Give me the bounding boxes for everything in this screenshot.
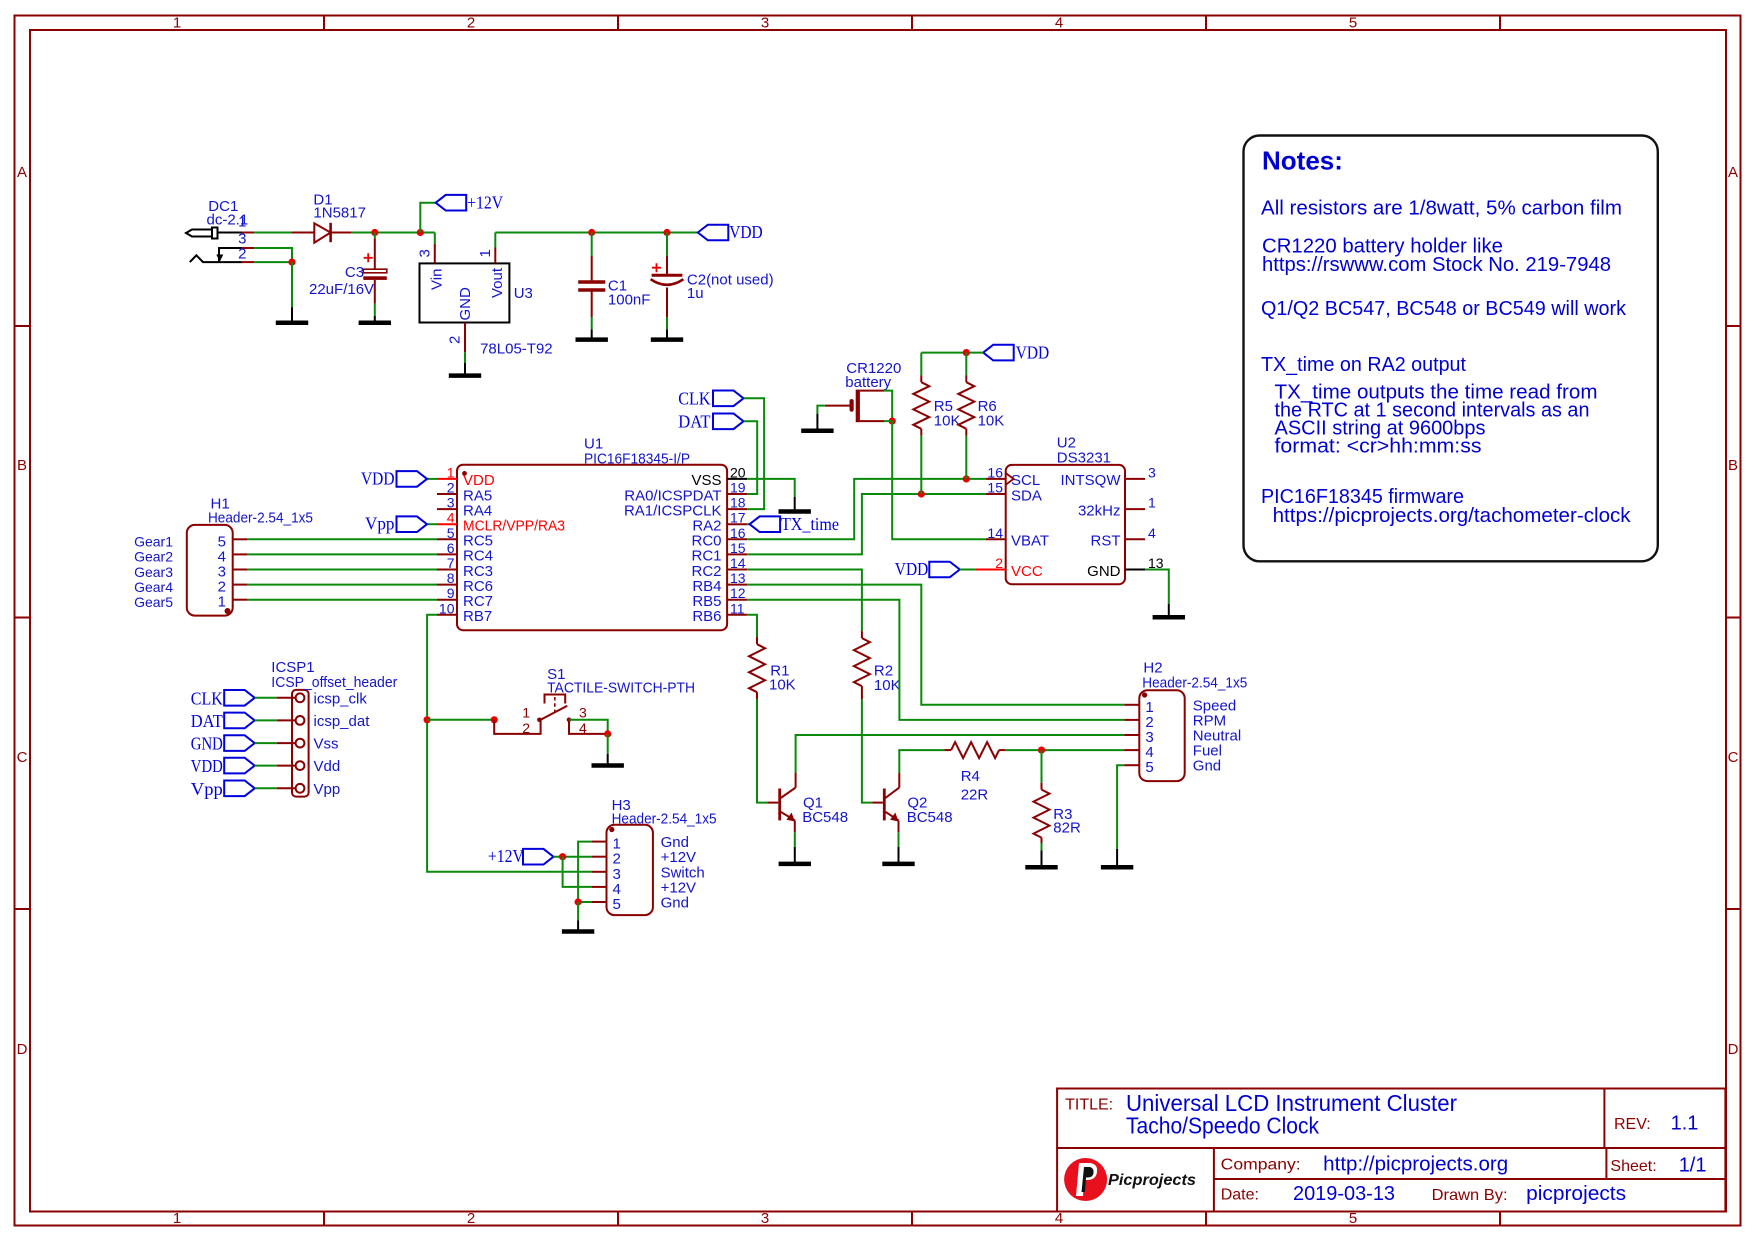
wire DAT to ICSP1 <box>255 719 277 721</box>
svg-text:BC548: BC548 <box>907 809 953 826</box>
svg-text:Gear3: Gear3 <box>134 564 173 580</box>
svg-text:+12V: +12V <box>488 846 524 866</box>
U1 pin 4 MCLR/VPP/RA3 <box>437 523 457 525</box>
svg-text:Notes:: Notes: <box>1262 146 1343 176</box>
wire H1 pin 3 to U1 <box>247 569 437 571</box>
svg-text:5: 5 <box>1145 759 1153 776</box>
wire jack node down to ground <box>291 262 293 307</box>
svg-text:icsp_dat: icsp_dat <box>314 713 371 730</box>
svg-text:32kHz: 32kHz <box>1078 502 1121 519</box>
svg-text:DS3231: DS3231 <box>1057 449 1111 466</box>
connector H1 Header-2.54_1x5 <box>187 525 233 616</box>
ground S1 <box>607 754 609 766</box>
notes box <box>1244 136 1658 562</box>
wire DC1 pin3 down to pin2 node <box>254 248 292 262</box>
svg-text:19: 19 <box>730 480 746 496</box>
ground U2 <box>1168 604 1170 617</box>
wire H2 Gnd to ground <box>1117 765 1124 849</box>
svg-text:2: 2 <box>467 15 475 32</box>
U1 pin 3 RA4 <box>437 508 457 510</box>
power flag Vpp at U1 pin4 <box>427 523 437 525</box>
U1 PIC16F18345-I/P body <box>457 465 727 631</box>
svg-text:VDD: VDD <box>729 222 763 242</box>
node C2 junction <box>663 229 670 236</box>
node jack ground junction <box>288 259 295 266</box>
wire H1 pin 5 to U1 <box>247 538 437 540</box>
svg-text:DAT: DAT <box>191 711 223 731</box>
svg-text:13: 13 <box>730 570 746 586</box>
wire R3 to ground <box>1041 843 1043 850</box>
svg-text:GND: GND <box>457 287 474 321</box>
svg-text:1: 1 <box>173 1210 181 1227</box>
wire GND to ICSP1 <box>255 742 277 744</box>
svg-text:VDD: VDD <box>895 559 929 579</box>
svg-text:C3: C3 <box>345 264 364 281</box>
node SCL R6 junction <box>963 475 970 482</box>
wire U1 RB7 down to H3 switch <box>427 615 592 872</box>
svg-text:3: 3 <box>417 249 434 257</box>
flag DAT <box>224 713 255 729</box>
svg-text:2: 2 <box>522 720 530 736</box>
power flag +12V at H3 <box>523 849 554 865</box>
svg-text:Drawn By:: Drawn By: <box>1432 1187 1508 1204</box>
svg-text:GND: GND <box>191 734 223 754</box>
battery CR1220 <box>825 390 884 423</box>
U1 pin 19 RA0/ICSPDAT <box>727 493 747 495</box>
svg-text:16: 16 <box>987 464 1003 480</box>
svg-text:5: 5 <box>1349 15 1357 32</box>
power flag VDD rail <box>698 225 729 241</box>
wire +12V flag to H3 pin2 <box>554 856 593 858</box>
wire battery minus to ground <box>817 406 824 414</box>
wire H1 pin 1 to U1 <box>247 599 437 601</box>
svg-text:+12V: +12V <box>467 192 503 212</box>
U2 pin 1 32kHz <box>1125 508 1145 510</box>
svg-text:A: A <box>1728 164 1738 181</box>
svg-text:3: 3 <box>761 1210 769 1227</box>
capacitor C2 1u not used <box>651 233 684 330</box>
wire battery plus <box>884 391 892 422</box>
wire U1 RB6 to R1 <box>747 615 757 637</box>
flag CLK <box>224 690 255 706</box>
svg-text:SDA: SDA <box>1011 487 1042 504</box>
svg-text:RST: RST <box>1091 533 1121 550</box>
node R6 top junction <box>963 349 970 356</box>
svg-text:100nF: 100nF <box>608 292 651 309</box>
picprojects logo <box>1064 1158 1196 1201</box>
svg-text:16: 16 <box>730 525 746 541</box>
U3 pin 2 GND <box>464 323 466 353</box>
node battery junction <box>889 418 896 425</box>
svg-text:22R: 22R <box>961 787 989 804</box>
svg-text:REV:: REV: <box>1614 1116 1651 1133</box>
svg-text:DAT: DAT <box>678 411 710 431</box>
U1 pin 13 RB4 <box>727 584 747 586</box>
svg-text:2: 2 <box>238 246 246 263</box>
H2 pin 5 Gnd <box>1124 764 1139 766</box>
svg-text:78L05-T92: 78L05-T92 <box>480 341 553 358</box>
H3 pin 5 Gnd <box>592 901 607 903</box>
ICSP1 pad icsp_clk <box>296 693 305 702</box>
svg-text:Vpp: Vpp <box>191 779 223 799</box>
svg-text:18: 18 <box>730 495 746 511</box>
svg-text:4: 4 <box>447 510 455 526</box>
ground C3 <box>374 316 376 323</box>
wire U1 RC0 to U2 SCL <box>747 479 986 539</box>
svg-text:7: 7 <box>447 555 455 571</box>
svg-text:Gnd: Gnd <box>661 895 689 912</box>
flag Vpp <box>224 781 255 797</box>
wire +12V to H3 pin4 <box>563 857 592 887</box>
svg-text:1: 1 <box>447 464 455 480</box>
wire Vpp to ICSP1 <box>255 787 277 789</box>
svg-text:4: 4 <box>1148 525 1156 541</box>
svg-text:ICSP_offset_header: ICSP_offset_header <box>271 674 397 691</box>
wire R1 to Q1 base <box>757 699 767 803</box>
svg-text:BC548: BC548 <box>802 809 848 826</box>
svg-text:1: 1 <box>238 213 246 230</box>
wire Q2 emitter to ground <box>898 832 900 847</box>
flag DAT <box>713 414 744 430</box>
svg-text:Vpp: Vpp <box>365 514 395 534</box>
H1 pin 4 <box>233 553 248 555</box>
wire R5 top <box>920 353 922 376</box>
svg-text:TX_time on RA2 output: TX_time on RA2 output <box>1261 354 1466 376</box>
svg-text:1: 1 <box>522 705 530 721</box>
svg-text:10K: 10K <box>874 677 901 694</box>
svg-text:Gear4: Gear4 <box>134 579 173 595</box>
ICSP1 pad icsp_dat <box>296 716 305 725</box>
svg-text:Vin: Vin <box>429 269 446 290</box>
svg-text:Picprojects: Picprojects <box>1108 1172 1196 1189</box>
ground Q2 <box>898 847 900 864</box>
svg-text:9: 9 <box>447 585 455 601</box>
wire R6 to SCL <box>965 436 967 479</box>
U1 pin 6 RC4 <box>437 553 457 555</box>
transistor Q2 BC548 <box>872 773 899 832</box>
connector DC1 barrel jack <box>186 228 242 263</box>
ICSP1 pad Vdd <box>296 761 305 770</box>
wire D1 cathode to +12V rail <box>351 232 434 234</box>
title block <box>1057 1089 1725 1212</box>
U1 pin 15 RC1 <box>727 553 747 555</box>
svg-text:TITLE:: TITLE: <box>1065 1097 1113 1114</box>
flag VDD <box>224 758 255 774</box>
U2 pin 2 VCC <box>976 569 1006 571</box>
U1 pin 14 RC2 <box>727 569 747 571</box>
wire DAT to U1 RA0/ICSPDAT <box>744 421 758 494</box>
node C3 junction <box>371 229 378 236</box>
svg-text:12: 12 <box>730 585 746 601</box>
svg-text:2019-03-13: 2019-03-13 <box>1293 1183 1395 1205</box>
H2 pin 3 Neutral <box>1124 734 1139 736</box>
wire Q1 collector to Neutral <box>796 735 1125 773</box>
ICSP1 pad Vss <box>296 739 305 748</box>
U2 DS3231 body <box>1006 465 1125 584</box>
DC1 pin 2 <box>242 261 254 263</box>
svg-text:Q1/Q2 BC547, BC548 or BC549 wi: Q1/Q2 BC547, BC548 or BC549 will work <box>1261 298 1627 320</box>
U2 pin 4 RST <box>1125 538 1145 540</box>
svg-text:4: 4 <box>579 720 587 736</box>
resistor R2 10K <box>861 631 863 638</box>
resistor R6 10K <box>965 375 967 382</box>
svg-text:11: 11 <box>730 600 745 616</box>
wire DC1 pin1 to D1 <box>254 232 291 234</box>
flag TX_time at RA2 <box>747 523 749 525</box>
connector ICSP1 ICSP_offset_header <box>292 690 309 797</box>
svg-text:Tacho/Speedo Clock: Tacho/Speedo Clock <box>1126 1113 1319 1139</box>
U3 pin 3 Vin <box>434 233 436 244</box>
wire U1 RC1 to U2 SDA <box>747 494 986 554</box>
svg-text:icsp_clk: icsp_clk <box>314 690 368 707</box>
svg-text:82R: 82R <box>1053 819 1081 836</box>
svg-text:B: B <box>17 457 27 474</box>
U1 pin 20 VSS <box>727 478 747 480</box>
capacitor C3 22uF/16V <box>363 233 387 317</box>
svg-text:battery: battery <box>845 374 891 391</box>
svg-text:2: 2 <box>447 336 464 344</box>
U1 pin1 marker dot <box>462 471 467 476</box>
svg-text:Sheet:: Sheet: <box>1610 1158 1656 1175</box>
wire U2 GND to ground <box>1145 570 1169 605</box>
svg-text:2: 2 <box>447 480 455 496</box>
svg-text:D: D <box>1728 1041 1739 1058</box>
wire up to +12V flag <box>420 203 435 233</box>
U2 SCL clock wedge <box>1006 473 1014 485</box>
connector H2 Header-2.54_1x5 <box>1139 690 1184 781</box>
wire Vout to VDD flag rail <box>495 232 698 234</box>
svg-text:Vss: Vss <box>314 736 339 753</box>
svg-text:CLK: CLK <box>191 688 223 708</box>
H1 pin 1 <box>233 599 248 601</box>
svg-text:B: B <box>1728 457 1738 474</box>
svg-text:All resistors are 1/8watt, 5%: All resistors are 1/8watt, 5% carbon fil… <box>1261 198 1622 220</box>
resistor R4 22R <box>944 749 951 751</box>
svg-text:1u: 1u <box>687 285 704 302</box>
svg-text:Vout: Vout <box>489 267 506 298</box>
svg-text:GND: GND <box>1087 563 1121 580</box>
flag GND <box>224 735 255 751</box>
svg-text:TX_time: TX_time <box>781 514 839 534</box>
capacitor C1 100nF <box>578 233 605 330</box>
svg-text:INTSQW: INTSQW <box>1061 472 1122 489</box>
power flag VDD at U2 VCC <box>929 562 960 578</box>
svg-text:2: 2 <box>995 555 1003 571</box>
H2 pin 2 RPM <box>1124 719 1139 721</box>
svg-text:1: 1 <box>218 594 226 611</box>
U1 pin 7 RC3 <box>437 569 457 571</box>
svg-text:CLK: CLK <box>678 388 710 408</box>
ground VSS <box>794 497 796 512</box>
svg-text:Vdd: Vdd <box>314 758 341 775</box>
node H3 gnd junction <box>575 898 582 905</box>
svg-text:22uF/16V: 22uF/16V <box>309 281 374 298</box>
H3 pin 4 +12V <box>592 886 607 888</box>
wire S1 node down <box>607 734 609 754</box>
svg-text:1: 1 <box>1148 495 1156 511</box>
wire Q1 emitter to ground <box>794 832 796 847</box>
wire CLK to U1 RA1/ICSPCLK <box>744 398 765 509</box>
node S1 pin2 junction <box>491 716 498 723</box>
U2 pin 14 VBAT <box>986 538 1006 540</box>
DC1 pin 3 <box>242 247 254 249</box>
ground C1 <box>591 329 593 339</box>
svg-text:Vpp: Vpp <box>314 781 341 798</box>
wire U1 RC2 to R2 <box>747 570 862 632</box>
power flag VDD pullups <box>983 345 1014 361</box>
svg-text:RB6: RB6 <box>692 608 721 625</box>
wire R5 to SDA <box>920 436 922 494</box>
wire U1 VSS to ground <box>747 479 795 497</box>
wire VDD to ICSP1 <box>255 765 277 767</box>
wire battery to U2 VBAT <box>892 421 986 539</box>
svg-text:17: 17 <box>730 510 746 526</box>
DC1 pin 1 <box>242 232 254 234</box>
svg-text:3: 3 <box>579 705 587 721</box>
svg-text:Gear2: Gear2 <box>134 549 173 565</box>
svg-text:10: 10 <box>439 600 455 616</box>
wire CLK to ICSP1 <box>255 697 277 699</box>
svg-text:Gear5: Gear5 <box>134 594 173 610</box>
U1 pin 9 RC7 <box>437 599 457 601</box>
svg-text:1: 1 <box>173 15 181 32</box>
svg-text:2: 2 <box>467 1210 475 1227</box>
wire U1 RB5 to H2 RPM <box>747 600 1124 720</box>
svg-text:https://picprojects.org/tachom: https://picprojects.org/tachometer-clock <box>1273 505 1632 527</box>
svg-text:VDD: VDD <box>361 468 395 488</box>
H3 pin 3 Switch <box>592 871 607 873</box>
resistor R5 10K <box>920 375 922 382</box>
svg-text:VCC: VCC <box>1011 563 1043 580</box>
U1 pin 10 RB7 <box>437 614 457 616</box>
wire H3 gnd down <box>577 902 579 920</box>
svg-text:1: 1 <box>477 249 494 257</box>
U1 pin 18 RA1/ICSPCLK <box>727 508 747 510</box>
H3 pin 2 +12V <box>592 856 607 858</box>
svg-text:14: 14 <box>730 555 746 571</box>
svg-text:Company:: Company: <box>1221 1157 1301 1174</box>
svg-text:10K: 10K <box>978 413 1005 430</box>
U1 pin 1 VDD <box>437 478 457 480</box>
svg-text:Header-2.54_1x5: Header-2.54_1x5 <box>612 811 717 828</box>
diode D1 1N5817 <box>291 223 351 243</box>
H1 pin 5 <box>233 538 248 540</box>
node S1 pin4 junction <box>604 730 611 737</box>
svg-text:4: 4 <box>1055 15 1063 32</box>
svg-text:RB7: RB7 <box>463 608 492 625</box>
connector H3 Header-2.54_1x5 <box>607 825 653 915</box>
svg-text:15: 15 <box>730 540 746 556</box>
flag CLK <box>713 391 744 407</box>
svg-text:10K: 10K <box>769 677 796 694</box>
svg-text:VDD: VDD <box>191 756 223 776</box>
ground H2 <box>1116 849 1118 867</box>
wire U1 RB4 to H2 Speed <box>747 585 1124 705</box>
U2 pin 3 INTSQW <box>1125 478 1145 480</box>
node SDA R5 junction <box>918 490 925 497</box>
svg-text:Gear1: Gear1 <box>134 534 173 550</box>
svg-text:U3: U3 <box>514 285 533 302</box>
ground jack <box>291 307 293 323</box>
H2 pin 1 Speed <box>1124 704 1139 706</box>
ICSP1 pad Vpp <box>296 784 305 793</box>
svg-text:https://rswww.com Stock No. 21: https://rswww.com Stock No. 219-7948 <box>1262 254 1611 276</box>
svg-text:VBAT: VBAT <box>1011 533 1049 550</box>
svg-text:8: 8 <box>447 570 455 586</box>
wire S1 pin3 to ground <box>569 720 608 734</box>
ground C2 <box>666 329 668 339</box>
node +12V junction <box>559 853 566 860</box>
svg-text:TACTILE-SWITCH-PTH: TACTILE-SWITCH-PTH <box>547 680 695 697</box>
switch S1 TACTILE-SWITCH-PTH <box>494 695 608 734</box>
svg-text:4: 4 <box>1055 1210 1063 1227</box>
svg-text:C: C <box>1728 749 1739 766</box>
svg-text:format: <cr>hh:mm:ss: format: <cr>hh:mm:ss <box>1275 436 1482 458</box>
svg-text:20: 20 <box>730 464 746 480</box>
svg-text:14: 14 <box>987 525 1003 541</box>
node RB7 switch branch <box>424 716 431 723</box>
resistor R3 82R <box>1041 783 1043 790</box>
H2 pin 4 Fuel <box>1124 749 1139 751</box>
H3 pin 1 Gnd <box>592 841 607 843</box>
wire R3 top <box>1041 750 1043 783</box>
svg-text:R4: R4 <box>961 768 980 785</box>
H1 pin 2 <box>233 584 248 586</box>
wire H1 pin 4 to U1 <box>247 553 437 555</box>
svg-text:Date:: Date: <box>1221 1187 1259 1204</box>
svg-text:1.1: 1.1 <box>1671 1113 1699 1135</box>
node C1 junction <box>588 229 595 236</box>
wire battery plus top <box>884 420 892 422</box>
svg-text:VDD: VDD <box>1016 342 1049 362</box>
svg-text:3: 3 <box>447 495 455 511</box>
node +12V flag junction <box>417 229 424 236</box>
regulator U3 78L05-T92 <box>420 263 510 322</box>
U2 pin 15 SDA <box>986 493 1006 495</box>
svg-text:6: 6 <box>447 540 455 556</box>
wire R6 top <box>965 353 967 376</box>
svg-text:3: 3 <box>1148 464 1156 480</box>
wire H1 pin 2 to U1 <box>247 584 437 586</box>
U1 pin 8 RC6 <box>437 584 457 586</box>
wire Q2 collector to R4 <box>899 750 944 773</box>
transistor Q1 BC548 <box>767 773 795 832</box>
U1 pin 16 RC0 <box>727 538 747 540</box>
svg-text:3: 3 <box>761 15 769 32</box>
ground U3 <box>464 363 466 376</box>
svg-text:5: 5 <box>447 525 455 541</box>
svg-text:C: C <box>17 749 28 766</box>
svg-text:Header-2.54_1x5: Header-2.54_1x5 <box>208 510 313 527</box>
svg-text:1N5817: 1N5817 <box>313 205 366 222</box>
svg-text:5: 5 <box>1349 1210 1357 1227</box>
U1 pin 2 RA5 <box>437 493 457 495</box>
svg-text:PIC16F18345-I/P: PIC16F18345-I/P <box>584 451 690 468</box>
U2 pin 16 SCL <box>986 478 1006 480</box>
svg-text:picprojects: picprojects <box>1526 1183 1626 1205</box>
svg-text:A: A <box>17 164 27 181</box>
U1 pin 11 RB6 <box>727 614 747 616</box>
H1 pin 3 <box>233 569 248 571</box>
svg-text:http://picprojects.org: http://picprojects.org <box>1323 1154 1508 1176</box>
power flag VDD at U1 pin1 <box>427 478 437 480</box>
ground Q1 <box>794 847 796 864</box>
svg-text:5: 5 <box>613 896 621 913</box>
wire to S1 <box>427 719 494 721</box>
svg-text:1/1: 1/1 <box>1679 1155 1707 1177</box>
U3 pin 1 Vout <box>494 248 496 264</box>
power flag +12V <box>436 195 467 211</box>
